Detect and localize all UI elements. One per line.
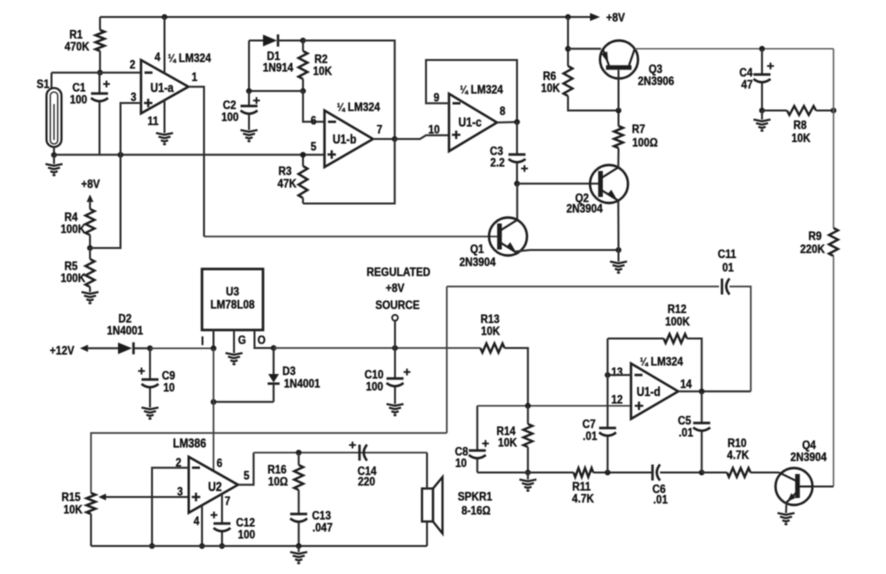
wire Q4 collector to R9 xyxy=(813,486,834,488)
wire R15 wiper arrow from U2 pin 3 xyxy=(104,496,189,498)
transistor Q1 2N3904 xyxy=(489,218,527,256)
wire U3 input pin I xyxy=(213,330,215,348)
node C4 top xyxy=(759,46,765,52)
svg-text:.01: .01 xyxy=(583,430,597,443)
capacitor C1 xyxy=(99,73,101,94)
svg-text:220: 220 xyxy=(358,476,375,489)
wire U1-b output to U1-c pin 10 xyxy=(395,135,449,139)
svg-text:100: 100 xyxy=(70,94,87,107)
node U2 bottom rail junctions xyxy=(149,543,155,549)
svg-text:6: 6 xyxy=(311,115,317,128)
svg-text:.01: .01 xyxy=(653,494,667,507)
resistor R5 xyxy=(89,248,91,259)
wire U2 pin 2 xyxy=(152,468,189,546)
svg-text:U1-d: U1-d xyxy=(637,385,661,399)
svg-text:2N3904: 2N3904 xyxy=(790,451,827,464)
svg-text:01: 01 xyxy=(722,262,734,275)
wire D1 branch left vertical xyxy=(248,41,250,92)
resistor R8 xyxy=(762,110,787,112)
svg-text:+8V: +8V xyxy=(386,282,405,295)
wire +8V rail drop to Q3 xyxy=(567,17,569,49)
svg-text:R7: R7 xyxy=(632,123,645,136)
svg-text:2N3904: 2N3904 xyxy=(459,256,496,269)
wire U1-b pin 6 xyxy=(303,91,325,122)
svg-text:100: 100 xyxy=(238,529,255,542)
svg-text:¼LM324: ¼LM324 xyxy=(640,356,684,369)
node pin2 junction xyxy=(97,70,103,76)
resistor R4 xyxy=(87,195,94,203)
svg-text:2N3904: 2N3904 xyxy=(566,203,603,216)
ground below C9 xyxy=(142,408,159,419)
transistor Q2 2N3904 xyxy=(590,165,628,203)
wire R2 bottom to C2 xyxy=(249,90,303,92)
svg-text:C12: C12 xyxy=(236,517,255,530)
resistor R11 xyxy=(574,468,594,477)
wire U1-a output to Q1 base xyxy=(188,87,204,237)
node Q3 base junction xyxy=(616,108,622,114)
capacitor C4 xyxy=(761,49,763,75)
resistor R2 xyxy=(302,41,304,52)
wire U1-a pin 4 to +8V xyxy=(164,17,166,73)
diode D2 1N4001 xyxy=(87,347,118,349)
node S1 bottom junction xyxy=(51,152,57,158)
svg-text:470K: 470K xyxy=(65,41,91,54)
svg-text:4.7K: 4.7K xyxy=(727,449,750,462)
wire raw supply down to U2 pin 6 xyxy=(213,348,215,471)
svg-text:REGULATED: REGULATED xyxy=(367,266,431,279)
svg-text:5: 5 xyxy=(311,141,317,154)
node D3 anode junction xyxy=(271,345,277,351)
svg-text:¼LM324: ¼LM324 xyxy=(460,84,504,97)
speaker SPKR1 xyxy=(422,489,433,522)
svg-text:R11: R11 xyxy=(572,481,590,494)
svg-text:220K: 220K xyxy=(800,243,826,256)
resistor R10 xyxy=(702,472,727,474)
svg-text:10K: 10K xyxy=(63,504,83,517)
wire feedback left vertical xyxy=(446,287,448,434)
svg-text:Q1: Q1 xyxy=(470,243,484,256)
svg-text:47: 47 xyxy=(741,79,753,92)
svg-text:10Ω: 10Ω xyxy=(268,476,288,489)
svg-text:C13: C13 xyxy=(312,510,331,523)
wire Q3 collector to C4/R9 xyxy=(635,48,834,50)
svg-text:1: 1 xyxy=(192,71,198,84)
wire D3 return to input node xyxy=(214,401,274,403)
capacitor C13 xyxy=(290,513,307,515)
svg-text:100K: 100K xyxy=(665,316,691,329)
svg-text:Q3: Q3 xyxy=(649,63,663,76)
wire C3 junction to Q2 base xyxy=(517,183,601,185)
svg-text:5: 5 xyxy=(244,470,250,483)
svg-text:C10: C10 xyxy=(364,369,383,382)
svg-text:10: 10 xyxy=(455,457,467,470)
wire R3 bottom feedback xyxy=(303,139,395,204)
resistor R13 xyxy=(480,344,504,353)
svg-text:13: 13 xyxy=(611,366,623,379)
capacitor C7 xyxy=(607,375,609,428)
op-amp U1-a xyxy=(141,60,188,113)
wire U2 output pin 5 xyxy=(238,453,254,485)
svg-text:2N3906: 2N3906 xyxy=(638,75,674,88)
node C5 bottom xyxy=(699,470,705,476)
wire U1-c feedback loop pin 9 to output xyxy=(426,60,517,122)
wire U2 pin 7 / capacitor C12 xyxy=(221,494,223,524)
svg-text:11: 11 xyxy=(148,115,159,128)
svg-text:S1: S1 xyxy=(37,78,50,91)
svg-text:R15: R15 xyxy=(61,491,80,504)
capacitor C3 xyxy=(516,122,518,155)
op-amp U1-c xyxy=(449,94,497,152)
svg-text:2: 2 xyxy=(130,59,136,72)
wire feedback to R15 xyxy=(91,433,447,493)
svg-text:U1-a: U1-a xyxy=(150,81,174,95)
svg-text:10K: 10K xyxy=(541,82,561,95)
wire Q1 emitter to ground node xyxy=(516,250,619,252)
node R2 bottom xyxy=(300,88,306,94)
node R3 top (pin 5) xyxy=(300,152,306,158)
svg-text:10: 10 xyxy=(428,124,440,137)
node R14 bottom ground junction xyxy=(525,470,531,476)
capacitor C8 xyxy=(476,406,478,451)
svg-text:C9: C9 xyxy=(162,370,175,383)
terminal regulated +8V source xyxy=(392,315,398,321)
op-amp U1-d xyxy=(631,364,678,419)
svg-text:R1: R1 xyxy=(69,29,82,42)
svg-text:10K: 10K xyxy=(498,437,518,450)
wire bottom rail (U2) xyxy=(91,545,427,547)
svg-text:10K: 10K xyxy=(313,65,333,78)
svg-text:R2: R2 xyxy=(314,53,327,66)
svg-text:¼LM324: ¼LM324 xyxy=(168,52,212,65)
svg-text:Q4: Q4 xyxy=(802,439,816,452)
svg-text:C2: C2 xyxy=(223,99,236,112)
node R8 right junction xyxy=(831,108,837,114)
node R2 top xyxy=(300,38,306,44)
svg-text:14: 14 xyxy=(680,378,692,391)
svg-text:R5: R5 xyxy=(64,260,77,273)
svg-text:100: 100 xyxy=(366,381,383,394)
svg-text:SOURCE: SOURCE xyxy=(375,299,420,312)
wire feedback top to C11 xyxy=(447,286,719,288)
wire C3 junction to Q1 collector xyxy=(516,184,518,220)
ground U1-a pin 11 xyxy=(156,133,173,144)
svg-text:.047: .047 xyxy=(312,522,332,535)
node C2 top xyxy=(246,88,252,94)
node C4 bottom xyxy=(759,108,765,114)
svg-text:U3: U3 xyxy=(226,286,239,299)
capacitor C2 xyxy=(248,91,250,106)
wire pin 3 to bias divider xyxy=(121,103,142,155)
svg-text:+12V: +12V xyxy=(50,345,75,358)
svg-text:10: 10 xyxy=(163,382,175,395)
op-amp U1-b xyxy=(325,111,374,168)
diode D1 1N914 xyxy=(249,40,263,42)
svg-text:100K: 100K xyxy=(61,223,87,236)
node U3 input junction xyxy=(211,345,217,351)
diode D3 1N4001 xyxy=(273,348,275,374)
node U1-c output xyxy=(497,121,517,124)
resistor R16 xyxy=(298,453,300,465)
svg-text:R16: R16 xyxy=(267,464,286,477)
wire raw +12V rail to U3 input xyxy=(150,347,214,349)
svg-text:+8V: +8V xyxy=(606,12,625,25)
svg-text:LM386: LM386 xyxy=(173,437,207,451)
svg-text:R13: R13 xyxy=(480,313,499,326)
node C3 bottom junction xyxy=(514,181,520,187)
svg-text:.01: .01 xyxy=(679,427,693,440)
node raw supply to U2 junction xyxy=(211,399,217,405)
ground below Q4 xyxy=(778,513,795,524)
svg-text:12: 12 xyxy=(611,394,623,407)
resistor R3 xyxy=(302,155,304,166)
wire Q2 emitter down xyxy=(617,201,619,250)
potentiometer R15 xyxy=(87,493,96,514)
wire Q3 base xyxy=(618,70,620,111)
node pin 13 junction xyxy=(608,374,631,376)
wire U1-d pin 12 node xyxy=(477,405,631,407)
capacitor C14 xyxy=(358,445,360,461)
node U1-b output xyxy=(373,138,395,140)
svg-text:47K: 47K xyxy=(277,178,297,191)
svg-text:6: 6 xyxy=(217,457,223,470)
resistor R9 xyxy=(833,49,835,228)
svg-text:R3: R3 xyxy=(278,165,291,178)
wire Q4 emitter to ground xyxy=(785,503,788,514)
capacitor C6 xyxy=(651,465,653,481)
ground below R5 xyxy=(82,292,99,303)
svg-text:4.7K: 4.7K xyxy=(572,493,595,506)
node Q1/Q2 emitter junction xyxy=(616,247,622,253)
svg-text:O: O xyxy=(257,334,265,347)
ground below S1 xyxy=(53,155,55,164)
svg-text:U1-c: U1-c xyxy=(458,116,482,130)
switch S1 (tube sensor) xyxy=(51,73,53,89)
svg-text:R12: R12 xyxy=(667,303,686,316)
svg-text:C7: C7 xyxy=(582,418,595,431)
svg-text:4: 4 xyxy=(194,515,200,528)
resistor R14 xyxy=(527,406,529,424)
wire regulated +8V rail xyxy=(274,347,481,349)
svg-text:10K: 10K xyxy=(481,325,501,338)
ground below C2 xyxy=(241,130,258,141)
ground Q1/Q2 emitters xyxy=(618,250,620,262)
resistor R12 xyxy=(607,339,609,376)
svg-text:1N4001: 1N4001 xyxy=(284,378,320,391)
svg-text:D2: D2 xyxy=(118,313,131,326)
svg-text:C5: C5 xyxy=(678,415,691,428)
regulator U3 LM78L08 xyxy=(202,269,263,330)
svg-text:100K: 100K xyxy=(61,272,87,285)
svg-text:C1: C1 xyxy=(72,82,85,95)
wire bias node (half supply) xyxy=(54,154,325,156)
ground below R14 xyxy=(527,473,529,480)
svg-text:R4: R4 xyxy=(64,211,78,224)
wire Q2 collector to R7 xyxy=(617,150,619,167)
svg-text:10K: 10K xyxy=(791,132,811,145)
op-amp U2 LM386 xyxy=(189,457,238,513)
node C10 junction xyxy=(392,345,398,351)
capacitor C11 xyxy=(721,279,723,295)
wire U1-a pin 11 xyxy=(164,100,166,133)
svg-text:R10: R10 xyxy=(727,437,746,450)
svg-text:SPKR1: SPKR1 xyxy=(458,491,493,504)
node R16 top xyxy=(296,450,302,456)
wire +8V top rail xyxy=(100,16,590,18)
svg-text:I: I xyxy=(201,335,204,348)
node C7 bottom xyxy=(605,470,611,476)
svg-text:U1-b: U1-b xyxy=(333,133,357,147)
svg-text:8: 8 xyxy=(500,105,506,118)
svg-text:4: 4 xyxy=(155,51,161,64)
resistor R6 xyxy=(567,49,569,66)
svg-text:100Ω: 100Ω xyxy=(632,137,658,150)
resistor R7 xyxy=(618,111,620,127)
svg-text:7: 7 xyxy=(377,124,383,137)
node D2/C9 junction xyxy=(147,345,153,351)
svg-text:3: 3 xyxy=(177,486,183,499)
svg-text:R8: R8 xyxy=(793,119,806,132)
transistor Q4 2N3904 xyxy=(776,468,813,505)
svg-text:2.2: 2.2 xyxy=(490,157,504,170)
svg-text:1N4001: 1N4001 xyxy=(107,325,143,338)
svg-text:8-16Ω: 8-16Ω xyxy=(461,505,490,518)
svg-text:7: 7 xyxy=(225,495,231,508)
ground below C10 xyxy=(387,404,404,415)
svg-text:100: 100 xyxy=(221,111,238,124)
wire U3 output pin O xyxy=(255,330,274,348)
svg-text:U2: U2 xyxy=(208,480,222,494)
wire pin 2 input xyxy=(52,72,142,74)
wire bottom signal rail xyxy=(477,472,573,474)
capacitor C10 xyxy=(394,348,396,379)
node C13 bottom xyxy=(296,543,302,549)
svg-text:1N914: 1N914 xyxy=(263,62,294,75)
svg-text:C11: C11 xyxy=(718,248,736,261)
svg-text:C4: C4 xyxy=(739,67,753,80)
ground below C4 xyxy=(761,111,763,120)
svg-text:R6: R6 xyxy=(543,70,556,83)
node R4/R5 junction xyxy=(87,245,93,251)
wire divider to bias node xyxy=(90,155,121,248)
wire D1/R2 top to U1-b output xyxy=(303,41,395,140)
node U1-d output xyxy=(678,390,751,392)
capacitor C5 xyxy=(701,391,703,423)
svg-text:LM78L08: LM78L08 xyxy=(210,299,254,312)
node pin12/R13 junction xyxy=(525,403,531,409)
svg-text:R9: R9 xyxy=(808,230,821,243)
ground below C13 xyxy=(298,546,300,552)
wire U2 pin 4 xyxy=(201,505,203,546)
resistor R1 xyxy=(99,17,101,30)
ground U3 pin G xyxy=(226,353,243,364)
wire U3 ground pin G xyxy=(233,330,235,353)
svg-text:¼LM324: ¼LM324 xyxy=(337,101,381,114)
transistor Q3 2N3906 xyxy=(600,41,638,79)
svg-text:D3: D3 xyxy=(282,365,295,378)
capacitor C9 xyxy=(149,348,151,379)
svg-text:G: G xyxy=(238,334,246,347)
svg-text:+8V: +8V xyxy=(81,178,100,191)
